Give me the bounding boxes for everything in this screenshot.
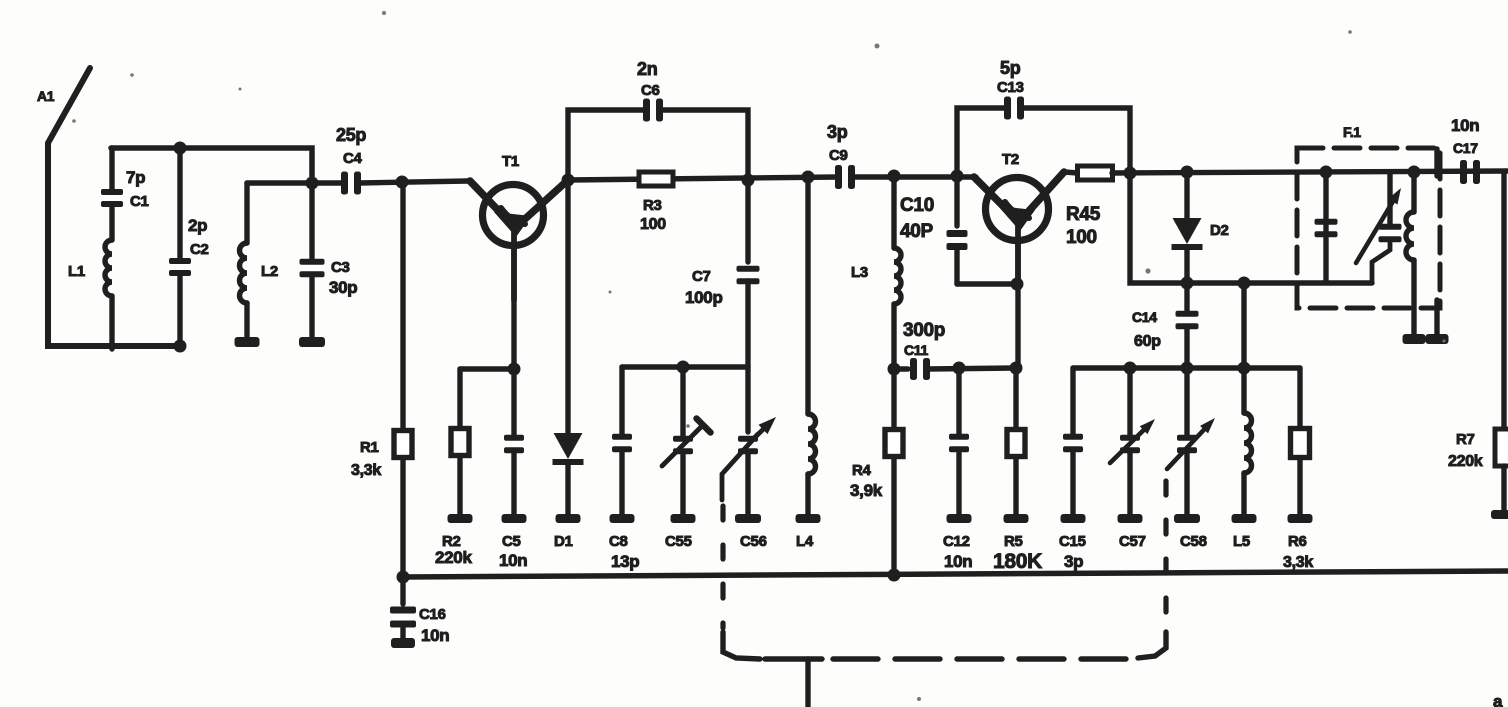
- svg-text:C9: C9: [829, 147, 848, 164]
- svg-text:2n: 2n: [637, 59, 657, 79]
- svg-text:3p: 3p: [1064, 552, 1083, 571]
- svg-text:L1: L1: [68, 263, 85, 280]
- svg-text:3p: 3p: [827, 122, 848, 142]
- svg-text:R6: R6: [1288, 533, 1307, 550]
- svg-text:C3: C3: [331, 259, 350, 276]
- svg-text:10n: 10n: [499, 551, 527, 570]
- svg-text:3,9k: 3,9k: [850, 481, 883, 500]
- svg-text:C17: C17: [1453, 140, 1478, 156]
- svg-text:3,3k: 3,3k: [351, 462, 381, 479]
- svg-text:100: 100: [640, 216, 666, 233]
- svg-text:R3: R3: [643, 197, 662, 214]
- svg-text:L4: L4: [796, 533, 814, 550]
- svg-text:C6: C6: [641, 82, 660, 99]
- svg-text:60p: 60p: [1134, 333, 1161, 350]
- svg-text:R45: R45: [1066, 204, 1101, 225]
- svg-text:2p: 2p: [188, 216, 207, 235]
- svg-text:C1: C1: [130, 193, 149, 210]
- svg-text:180K: 180K: [993, 550, 1042, 573]
- svg-text:R4: R4: [852, 462, 872, 479]
- svg-text:L5: L5: [1233, 533, 1250, 550]
- svg-text:C8: C8: [609, 533, 628, 550]
- svg-text:30p: 30p: [329, 278, 357, 297]
- svg-text:C11: C11: [904, 342, 929, 358]
- svg-text:L3: L3: [851, 264, 868, 281]
- svg-text:100: 100: [1066, 227, 1097, 248]
- svg-text:C55: C55: [665, 533, 692, 550]
- svg-text:C57: C57: [1119, 533, 1146, 550]
- svg-text:300p: 300p: [903, 320, 945, 341]
- svg-text:40P: 40P: [900, 221, 934, 242]
- svg-text:C4: C4: [343, 150, 363, 167]
- svg-text:13p: 13p: [611, 552, 639, 571]
- svg-text:C7: C7: [692, 268, 711, 285]
- svg-text:T1: T1: [502, 153, 519, 170]
- svg-text:D1: D1: [554, 533, 573, 550]
- svg-text:C14: C14: [1132, 309, 1157, 325]
- svg-text:R5: R5: [1004, 533, 1023, 550]
- svg-text:3,3k: 3,3k: [1283, 554, 1313, 571]
- svg-text:25p: 25p: [336, 125, 366, 145]
- svg-text:a: a: [1493, 692, 1503, 707]
- svg-text:100p: 100p: [685, 288, 723, 307]
- svg-text:220k: 220k: [1448, 453, 1483, 470]
- svg-text:C16: C16: [419, 606, 446, 623]
- svg-text:A1: A1: [37, 88, 55, 104]
- svg-text:10n: 10n: [944, 552, 972, 571]
- svg-text:C10: C10: [900, 195, 934, 216]
- svg-text:220k: 220k: [435, 548, 472, 567]
- svg-text:10n: 10n: [1451, 116, 1479, 135]
- svg-text:R7: R7: [1456, 431, 1475, 448]
- svg-text:T2: T2: [1002, 151, 1019, 168]
- svg-text:L2: L2: [261, 263, 278, 280]
- svg-text:F.1: F.1: [1343, 124, 1361, 140]
- svg-text:C15: C15: [1059, 533, 1086, 550]
- svg-text:7p: 7p: [126, 168, 145, 187]
- svg-text:R1: R1: [360, 439, 379, 456]
- svg-text:10n: 10n: [421, 626, 449, 645]
- svg-text:C58: C58: [1180, 533, 1207, 550]
- svg-text:C2: C2: [190, 241, 209, 258]
- svg-text:5p: 5p: [1000, 58, 1021, 78]
- svg-text:C13: C13: [997, 79, 1024, 96]
- svg-text:D2: D2: [1210, 222, 1229, 239]
- svg-text:C5: C5: [502, 533, 521, 550]
- svg-text:C56: C56: [740, 533, 767, 550]
- svg-text:C12: C12: [943, 533, 970, 550]
